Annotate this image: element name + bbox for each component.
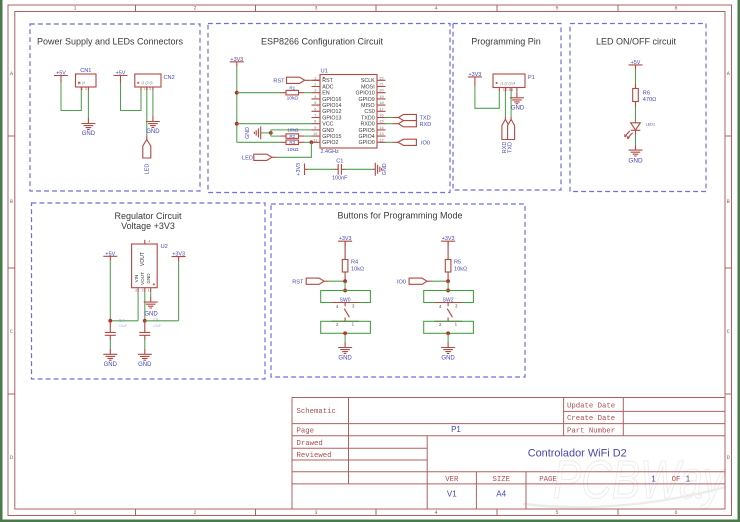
junction SW2 bottom [446, 331, 450, 335]
svg-text:16: 16 [379, 114, 383, 118]
wire ground to junction [261, 132, 271, 134]
junction SW2 top [446, 289, 450, 293]
svg-text:10kΩ: 10kΩ [351, 266, 364, 272]
svg-text:4: 4 [148, 240, 150, 244]
wire P1 pin 2 to RXD flag [504, 92, 506, 117]
svg-text:GND: GND [441, 356, 455, 362]
svg-text:+5V: +5V [105, 251, 115, 257]
svg-text:A: A [10, 71, 13, 77]
svg-text:3: 3 [352, 303, 355, 308]
svg-text:4: 4 [439, 304, 442, 309]
wire U2 GND pin to ground [150, 292, 152, 296]
svg-text:LED1: LED1 [646, 122, 656, 126]
svg-text:10kΩ: 10kΩ [287, 96, 299, 102]
svg-text:C: C [727, 329, 730, 335]
svg-text:5: 5 [555, 510, 558, 516]
net flag RST [273, 77, 304, 84]
svg-text:470Ω: 470Ω [643, 97, 657, 103]
svg-text:22: 22 [379, 76, 383, 80]
svg-text:GPIO2: GPIO2 [322, 140, 338, 146]
svg-text:ADC: ADC [322, 84, 333, 90]
svg-text:2: 2 [314, 83, 316, 87]
svg-text:R4: R4 [351, 260, 358, 266]
junction EN rail [235, 91, 239, 95]
net flag RXD [399, 121, 432, 128]
resistor R4 [342, 241, 358, 281]
wire SW2 to ground [447, 333, 449, 342]
svg-text:GND: GND [104, 362, 118, 368]
svg-text:C4: C4 [119, 318, 125, 323]
wire +3V3 to U1 VCC [237, 123, 312, 125]
svg-text:R5: R5 [454, 260, 461, 266]
wire RXD0 to flag [386, 123, 393, 125]
svg-text:2: 2 [439, 322, 442, 327]
svg-text:R1: R1 [289, 85, 295, 90]
resistor R6 [633, 84, 650, 107]
svg-text:ESP8266 Configuration Circuit: ESP8266 Configuration Circuit [261, 36, 384, 46]
section box: LED ON/OFF circuit [570, 24, 706, 192]
svg-text:18: 18 [379, 101, 383, 105]
capacitor C1 [335, 159, 345, 175]
net flag RST (button) [292, 278, 324, 285]
net flag IO0 (button) [397, 278, 427, 285]
svg-text:3: 3 [314, 89, 316, 93]
wire GPIO0 to flag [386, 141, 393, 143]
wire +3V3 to C1 [308, 168, 335, 170]
U1 left pin numbers [313, 76, 317, 142]
svg-text:10kΩ: 10kΩ [287, 127, 299, 133]
wire +3V3 to P1 pin 1 [474, 82, 476, 86]
wire C4 to ground [109, 340, 111, 349]
junction GND net [269, 131, 273, 135]
diode LED1 [624, 121, 655, 139]
svg-text:VIN: VIN [134, 275, 139, 283]
svg-text:+5V: +5V [631, 60, 641, 66]
svg-text:IO0: IO0 [397, 279, 406, 285]
svg-text:GPIO13: GPIO13 [322, 115, 341, 121]
svg-text:IO0: IO0 [421, 140, 430, 146]
wire R6 to LED1 [635, 107, 637, 122]
junction SW0 bottom [343, 331, 347, 335]
svg-text:20: 20 [379, 89, 383, 93]
svg-text:3: 3 [314, 510, 317, 516]
svg-text:5: 5 [555, 6, 558, 12]
svg-text:2: 2 [193, 6, 196, 12]
watermark PCBWay [523, 450, 726, 510]
svg-text:GPIO4: GPIO4 [358, 134, 374, 140]
connector CN1 [76, 68, 97, 91]
svg-text:GND: GND [146, 273, 151, 284]
svg-text:Schematic: Schematic [297, 408, 336, 416]
resistor R3 [281, 140, 305, 145]
svg-text:+3V3: +3V3 [469, 72, 482, 78]
wire CN2 pin 3 to ground [152, 91, 154, 117]
wire RST flag to junction [324, 280, 329, 282]
svg-text:GND: GND [511, 106, 525, 112]
svg-text:+3V3: +3V3 [172, 252, 185, 258]
junction R5 / IO0 [446, 279, 450, 283]
svg-text:3: 3 [455, 303, 458, 308]
wire R3 to U1 GPIO2 [304, 141, 311, 143]
svg-text:VER: VER [445, 476, 459, 484]
ground (SW0) [338, 342, 352, 362]
svg-text:GPIO10: GPIO10 [356, 91, 375, 97]
svg-text:6: 6 [674, 6, 677, 12]
svg-text:10kΩ: 10kΩ [287, 147, 299, 153]
svg-text:Part Number: Part Number [567, 428, 615, 436]
wire +5V to CN1 pin 1 [60, 81, 62, 83]
wire VOUT to +3V3 [145, 262, 179, 321]
resistor R5 [445, 241, 461, 281]
section title [114, 211, 182, 231]
ground (LED1) [628, 145, 643, 165]
svg-text:GND: GND [82, 131, 96, 137]
svg-text:LED ON/OFF circuit: LED ON/OFF circuit [596, 36, 677, 46]
wire GND net to U1 GND and R2 [271, 130, 312, 136]
capacitor C5 [139, 317, 162, 340]
svg-text:GND: GND [338, 356, 352, 362]
svg-text:9: 9 [314, 126, 316, 130]
svg-text:D: D [10, 455, 13, 461]
svg-text:GND: GND [144, 311, 158, 317]
svg-text:+3V3: +3V3 [296, 163, 302, 176]
svg-text:4: 4 [434, 510, 437, 516]
wire CN2 pin 2 to LED flag [146, 91, 148, 136]
svg-text:1: 1 [352, 322, 355, 327]
svg-text:VCC: VCC [322, 122, 333, 128]
section box: Power Supply and LEDs Connectors [30, 24, 200, 191]
svg-text:B: B [727, 199, 730, 205]
power +5V (CN2) [114, 71, 128, 81]
svg-text:3: 3 [135, 288, 137, 292]
power +3V3 (U1) [230, 57, 244, 67]
ground (C4) [103, 349, 117, 368]
svg-text:2: 2 [336, 322, 339, 327]
svg-text:GPIO0: GPIO0 [358, 140, 374, 146]
switch SW2 [424, 291, 474, 334]
svg-text:MISO: MISO [361, 103, 375, 109]
svg-text:+3V3: +3V3 [230, 57, 243, 63]
svg-text:GND: GND [146, 129, 160, 135]
svg-text:GPIO5: GPIO5 [358, 128, 374, 134]
svg-text:TXD0: TXD0 [361, 115, 375, 121]
U1 left pin stubs [312, 80, 321, 142]
svg-text:Regulator Circuit: Regulator Circuit [114, 211, 182, 221]
svg-text:3: 3 [314, 6, 317, 12]
wire R1 to U1 EN [304, 92, 311, 94]
wire junction to SW0 [344, 281, 346, 290]
wire U2 VOUT down [144, 292, 146, 321]
svg-text:6: 6 [674, 510, 677, 516]
title block labels [297, 403, 616, 460]
power +3V3 (R5) [441, 236, 455, 246]
junction C4 [108, 319, 112, 323]
wire TXD0 to flag [386, 117, 393, 119]
svg-text:GND: GND [382, 163, 388, 175]
svg-text:EN: EN [322, 91, 330, 97]
svg-text:A: A [727, 71, 730, 77]
svg-text:Create Date: Create Date [567, 415, 615, 423]
svg-text:GND: GND [322, 128, 334, 134]
svg-text:17: 17 [379, 107, 383, 111]
svg-text:Drawed: Drawed [297, 440, 323, 448]
junction SW0 top [343, 289, 347, 293]
svg-text:19: 19 [379, 95, 383, 99]
svg-text:7: 7 [314, 114, 316, 118]
svg-text:Power Supply and LEDs Connecto: Power Supply and LEDs Connectors [37, 36, 184, 46]
svg-text:GND: GND [138, 362, 152, 368]
resistor R2 [281, 134, 305, 139]
svg-text:6: 6 [314, 107, 316, 111]
svg-text:RXD: RXD [420, 122, 432, 128]
svg-text:R2: R2 [289, 134, 295, 139]
svg-text:(1 (2 (3 (4: (1 (2 (3 (4 [501, 81, 516, 85]
svg-text:B: B [10, 199, 13, 205]
svg-text:RST: RST [273, 78, 285, 84]
U1 right pin numbers [379, 76, 383, 142]
svg-text:LED: LED [145, 164, 151, 175]
wire SW0 to ground [344, 333, 346, 342]
ground (C1, sideways) [373, 163, 388, 176]
power +3V3 (C1, sideways) [296, 163, 308, 176]
svg-text:RXD0: RXD0 [361, 122, 375, 128]
section box: Regulator Circuit Voltage +3V3 [32, 203, 266, 379]
svg-text:U2: U2 [161, 244, 168, 250]
svg-text:Programming Pin: Programming Pin [471, 36, 541, 46]
svg-text:8: 8 [314, 120, 316, 124]
svg-text:R6: R6 [643, 90, 650, 96]
wire P1 pin 4 to ground [516, 91, 518, 94]
title block values [447, 425, 691, 499]
svg-text:LED: LED [242, 155, 253, 161]
svg-text:GPIO14: GPIO14 [322, 103, 341, 109]
svg-text:R3: R3 [289, 140, 295, 145]
svg-text:Voltage +3V3: Voltage +3V3 [121, 221, 175, 231]
section box: ESP8266 Configuration Circuit [208, 24, 450, 193]
svg-text:2.4GHz: 2.4GHz [321, 149, 340, 155]
svg-text:15: 15 [379, 120, 383, 124]
svg-text:GPIO9: GPIO9 [358, 97, 374, 103]
connector CN2 [135, 74, 175, 91]
svg-text:P1: P1 [528, 75, 535, 81]
svg-text:CN1: CN1 [80, 68, 91, 74]
svg-text:VOUT: VOUT [140, 272, 145, 285]
svg-text:(1 (2 (3: (1 (2 (3 [142, 81, 153, 85]
junction VCC rail [235, 122, 239, 126]
svg-text:+5V: +5V [56, 71, 66, 77]
svg-text:10uF: 10uF [119, 324, 128, 328]
svg-text:1 2 3 4: 1 2 3 4 [503, 88, 513, 92]
svg-text:A4: A4 [496, 490, 506, 499]
svg-text:Update Date: Update Date [567, 403, 615, 411]
power +5V (LED circuit) [629, 60, 643, 70]
wire LED1 to ground [635, 134, 637, 145]
svg-text:Buttons for Programming Mode: Buttons for Programming Mode [337, 210, 462, 220]
svg-text:U1: U1 [321, 69, 328, 75]
svg-text:10uF: 10uF [153, 324, 162, 328]
junction C5 [143, 319, 147, 323]
svg-text:100nF: 100nF [332, 176, 348, 182]
svg-text:1: 1 [314, 76, 316, 80]
svg-text:SCLK: SCLK [361, 78, 375, 84]
wire LED net [277, 142, 312, 157]
ground (SW2) [441, 342, 455, 362]
svg-text:1: 1 [73, 6, 76, 12]
section box: Programming Pin [453, 24, 561, 191]
svg-text:Page: Page [297, 428, 315, 436]
wire RST flag to U1 pin 1 [305, 79, 311, 81]
svg-text:PAGE: PAGE [539, 476, 557, 484]
svg-text:VOUT: VOUT [140, 252, 146, 266]
svg-text:5: 5 [314, 101, 316, 105]
wire +5V rail down [109, 261, 111, 321]
svg-text:(1 (2: (1 (2 [78, 81, 85, 85]
svg-text:GPIO15: GPIO15 [322, 134, 341, 140]
wire CN1 pin 2 to ground [87, 91, 89, 119]
svg-text:1: 1 [455, 322, 458, 327]
power +3V3 (regulator out) [172, 252, 186, 262]
svg-text:4: 4 [336, 304, 339, 309]
svg-text:SIZE: SIZE [492, 476, 510, 484]
section box: Buttons for Programming Mode [271, 204, 525, 377]
svg-text:1: 1 [148, 288, 150, 292]
svg-text:RST: RST [292, 279, 304, 285]
wire +3V3 rail vertical [236, 67, 238, 143]
svg-text:11: 11 [313, 138, 317, 142]
svg-text:TXD: TXD [508, 142, 514, 153]
svg-text:MOSI: MOSI [361, 84, 375, 90]
capacitor C4 [105, 318, 128, 340]
net flag LED (U1) [242, 154, 272, 161]
junction GPIO2 / LED net [310, 140, 314, 144]
ground (U2) [144, 297, 159, 318]
regulator U2 [132, 240, 168, 293]
svg-text:D: D [727, 455, 730, 461]
wire R2 to U1 GPIO15 [304, 135, 311, 137]
svg-text:RST: RST [322, 78, 333, 84]
svg-text:CN2: CN2 [164, 75, 175, 81]
U1 right pin names [356, 78, 376, 146]
svg-text:Controlador WiFi D2: Controlador WiFi D2 [528, 448, 627, 460]
power +5V (CN1) [54, 71, 68, 81]
svg-text:1: 1 [651, 474, 656, 483]
svg-text:12: 12 [379, 138, 383, 142]
svg-text:C: C [10, 329, 13, 335]
net flag TXD [399, 114, 431, 121]
svg-text:TXD: TXD [420, 116, 431, 122]
power +5V (regulator) [103, 251, 117, 261]
svg-text:GPIO12: GPIO12 [322, 109, 341, 115]
svg-text:4: 4 [434, 6, 437, 12]
ground (U1 GND pin) [245, 126, 261, 139]
ground (CN2) [146, 116, 160, 135]
svg-text:2: 2 [193, 510, 196, 516]
wire C1 to ground [345, 168, 373, 170]
svg-text:V1: V1 [447, 490, 457, 499]
svg-text:21: 21 [379, 83, 383, 87]
svg-text:1 2: 1 2 [81, 87, 87, 91]
power +3V3 (R4) [338, 236, 352, 246]
net flag IO0 [398, 139, 430, 146]
svg-text:1: 1 [73, 510, 76, 516]
wire C5 to ground [144, 340, 146, 349]
wire junction to SW2 [447, 281, 449, 290]
resistor R1 [281, 85, 305, 95]
ground (P1) [510, 92, 525, 111]
junction R4 / RST [343, 279, 347, 283]
wire +3V3 to R1 [237, 92, 281, 94]
U1 right pin stubs [377, 80, 386, 142]
ground (CN1) [81, 118, 95, 137]
svg-text:2: 2 [142, 288, 144, 292]
net flag RXD (P1) [502, 119, 509, 153]
svg-text:GPIO16: GPIO16 [322, 97, 341, 103]
svg-text:CS0: CS0 [364, 109, 374, 115]
svg-text:GND: GND [245, 127, 251, 139]
wire +5V to U2 VIN [110, 292, 138, 321]
wire +3V3 to R3 [237, 141, 281, 143]
svg-text:Reviewed: Reviewed [297, 452, 332, 460]
wire +5V to R6 [635, 70, 637, 84]
U1 left pin names [322, 78, 341, 146]
svg-text:10: 10 [313, 132, 317, 136]
wire IO0 flag to junction [427, 280, 432, 282]
connector P1 [493, 74, 535, 92]
net flag TXD (P1) [508, 119, 515, 153]
svg-text:1: 1 [686, 474, 691, 483]
svg-text:C5: C5 [153, 317, 159, 322]
svg-text:P1: P1 [451, 425, 461, 434]
svg-text:10kΩ: 10kΩ [454, 266, 467, 272]
svg-text:+5V: +5V [116, 71, 126, 77]
svg-text:C1: C1 [336, 159, 343, 165]
title block grid [292, 398, 725, 510]
op-amp U1 ESP8266 module [320, 69, 377, 148]
net flag LED [143, 140, 151, 175]
svg-text:13: 13 [379, 132, 383, 136]
svg-text:GND: GND [628, 158, 643, 165]
svg-text:OF: OF [672, 476, 681, 484]
power +3V3 (P1) [468, 72, 482, 82]
ground (C5) [138, 349, 152, 368]
svg-text:14: 14 [379, 126, 383, 130]
svg-text:4: 4 [314, 95, 316, 99]
wire +5V to CN2 pin 1 [120, 81, 122, 83]
switch SW0 [321, 291, 371, 334]
wire P1 pin 3 to TXD flag [510, 92, 512, 117]
